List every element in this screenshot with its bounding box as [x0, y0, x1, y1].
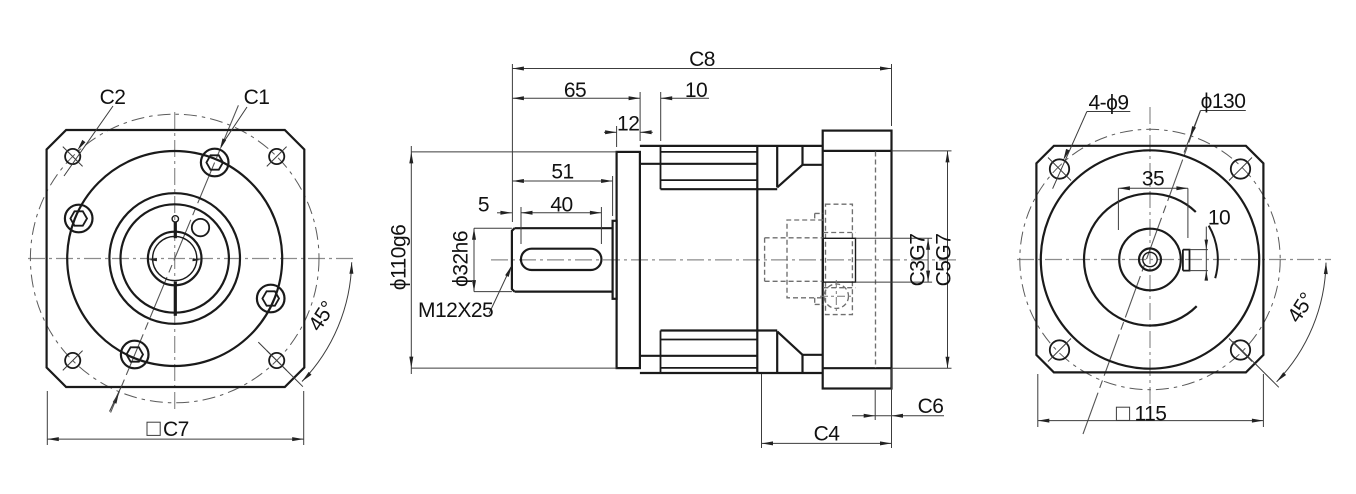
leader 4-phi9	[1087, 111, 1130, 113]
svg-text:4-ϕ9: 4-ϕ9	[1088, 92, 1128, 115]
corner hole 315deg	[269, 353, 284, 368]
dimension 10	[660, 92, 662, 141]
svg-text:ϕ32h6: ϕ32h6	[450, 231, 473, 287]
dimension C5G7	[892, 150, 952, 152]
clamp collar arc with slit gap	[1084, 194, 1197, 326]
dimension phi110g6	[411, 151, 616, 153]
dimension C4	[761, 374, 763, 448]
corner hole 9	[1231, 159, 1250, 178]
svg-text:5: 5	[478, 194, 489, 217]
dimension C8	[511, 64, 513, 222]
tiny pin circle top	[172, 216, 178, 222]
housing joint vertical	[756, 146, 758, 373]
pilot circle right	[1041, 150, 1259, 368]
output shaft top edge	[515, 227, 613, 229]
svg-text:ϕ130: ϕ130	[1201, 90, 1246, 113]
hidden notch bottom	[815, 303, 824, 305]
rear chamfer top	[776, 146, 778, 188]
svg-text:C3G7: C3G7	[907, 234, 930, 287]
square flange outline chamfered	[47, 130, 305, 387]
svg-text:45°: 45°	[1283, 289, 1319, 327]
clamp screw centermarks	[835, 280, 837, 313]
corner hole 9	[1231, 340, 1250, 359]
corner hole 45deg	[269, 149, 284, 164]
keyway rect	[1183, 250, 1190, 271]
leader phi130	[1201, 110, 1246, 112]
chain circle phi130 right	[1020, 129, 1280, 389]
svg-text:C4: C4	[814, 423, 841, 446]
output hub outer circle	[148, 232, 202, 286]
svg-text:M12X25: M12X25	[418, 299, 493, 322]
dimension C3G7	[856, 237, 933, 239]
hex screw 157.4deg	[65, 205, 93, 233]
body bottom edge	[640, 372, 823, 374]
dimension square115	[1037, 374, 1039, 427]
right centerline horizontal	[1017, 259, 1331, 261]
centerline horizontal left view	[28, 258, 356, 260]
svg-text:ϕ110g6: ϕ110g6	[388, 225, 411, 291]
svg-text:45°: 45°	[304, 297, 340, 335]
hub bore arrow left	[148, 258, 157, 261]
flange pilot circle	[67, 151, 282, 366]
hidden notch top	[815, 212, 824, 214]
rib lines bottom	[661, 367, 758, 369]
shaft shoulder collar	[613, 221, 617, 299]
svg-text:10: 10	[1208, 207, 1230, 230]
square115 text	[1116, 407, 1129, 420]
squareC7 text	[147, 422, 160, 435]
svg-text:51: 51	[551, 161, 573, 184]
neck line bottom	[640, 355, 757, 357]
rear chamfer bottom	[776, 331, 778, 373]
extra arc segment	[1209, 226, 1218, 279]
right square flange chamfered	[1036, 146, 1263, 373]
svg-text:12: 12	[617, 113, 639, 136]
shaft end face chamfered	[512, 228, 515, 291]
svg-text:C2: C2	[100, 86, 126, 109]
dimension squareC7	[46, 391, 48, 445]
svg-text:C5G7: C5G7	[933, 234, 956, 287]
hex screw 67.4deg	[201, 149, 229, 177]
svg-text:C1: C1	[244, 86, 270, 109]
chain circle phi130 bolt circle	[30, 114, 319, 403]
dimension phi32h6	[474, 227, 512, 229]
clamp hub circle	[1119, 229, 1181, 291]
svg-text:C7: C7	[163, 418, 189, 441]
leader C2	[64, 106, 113, 176]
svg-text:115: 115	[1135, 403, 1167, 426]
hidden cavity rect	[787, 220, 823, 298]
dimension C6	[874, 390, 876, 420]
corner diagonal bottom right	[258, 342, 303, 387]
hub bore arrow right	[193, 258, 202, 261]
hidden clamp screw circle	[824, 284, 848, 308]
dimension 65	[639, 92, 641, 141]
motor bore inner circle	[1143, 252, 1157, 266]
right diagonal line	[1083, 111, 1201, 435]
coupling bore section rect	[823, 238, 855, 282]
shaft keyway slot	[521, 249, 602, 270]
body top edge	[640, 145, 823, 147]
arrow on diagonal bottom left	[113, 392, 119, 403]
hidden pilot bore vertical	[875, 152, 877, 369]
dimension 10 keyway	[1190, 249, 1208, 251]
bearing circle outer	[109, 193, 240, 324]
corner diagonal bottom right view	[1233, 341, 1279, 387]
keyway bar top	[174, 222, 177, 238]
corner hole 9	[1050, 159, 1069, 178]
leader M12X25	[489, 267, 511, 314]
svg-text:C8: C8	[689, 48, 715, 71]
centerline vertical left view	[174, 112, 176, 411]
output shaft bottom edge	[515, 291, 613, 293]
output flange plate phi110	[617, 152, 640, 368]
pin hole circle	[192, 219, 209, 236]
motor adapter flange outline	[823, 131, 892, 389]
corner hole 9	[1050, 340, 1069, 359]
dimension 51	[612, 176, 614, 216]
svg-text:65: 65	[564, 79, 586, 102]
motor bore circle	[1139, 249, 1161, 271]
motor flange step lines	[823, 150, 892, 152]
dimension 12	[616, 126, 618, 147]
middle centerline	[491, 259, 957, 261]
keyway bar bottom	[174, 282, 177, 316]
dimension 5 and 40	[520, 207, 522, 244]
hidden motor shaft bore lines	[765, 237, 824, 239]
svg-text:35: 35	[1142, 168, 1164, 191]
rib lines top	[661, 151, 758, 153]
right centerline vertical	[1149, 107, 1151, 412]
svg-text:40: 40	[550, 194, 572, 217]
angular dimension arc 45deg	[302, 262, 352, 381]
corner hole 225deg	[65, 353, 80, 368]
corner hole 135deg	[65, 149, 80, 164]
hidden coupling bore rect	[826, 204, 853, 314]
svg-text:10: 10	[685, 79, 707, 102]
hex screw 337.4deg	[257, 285, 285, 313]
rib verticals	[660, 146, 662, 189]
hex screw 247.4deg	[121, 341, 149, 369]
neck line top	[640, 163, 757, 165]
angular arc 45 right	[1277, 263, 1326, 382]
bolt diagonal centerline 67.4deg	[111, 105, 239, 412]
output hub bore circle	[153, 236, 197, 280]
bearing circle inner	[121, 204, 229, 312]
svg-text:C6: C6	[918, 395, 944, 418]
leader C1	[221, 107, 247, 146]
hidden coupling outer lines	[823, 232, 855, 234]
dimension 35	[1117, 188, 1119, 230]
